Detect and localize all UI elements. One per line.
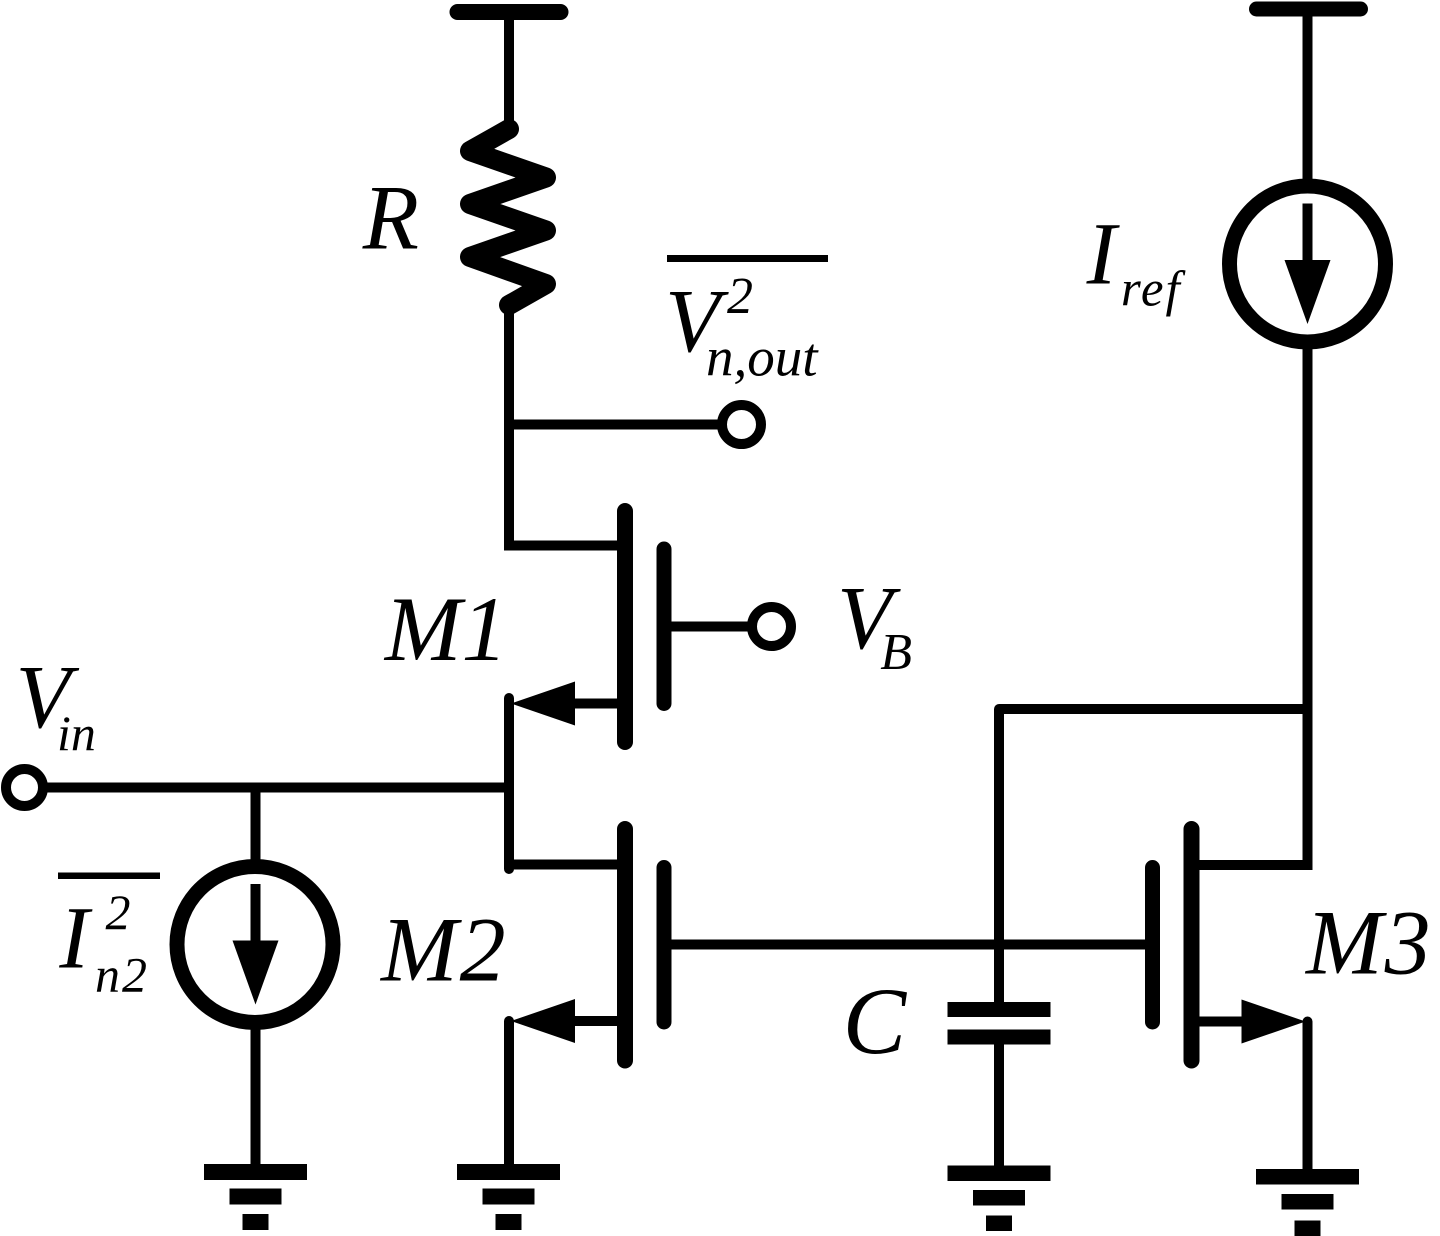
wire M3 source to ground — [1303, 1022, 1313, 1173]
label In2 overline — [58, 873, 160, 880]
svg-text:ref: ref — [1121, 262, 1187, 318]
wire M1 source to M2 drain — [504, 698, 514, 869]
svg-text:2: 2 — [106, 884, 131, 940]
transistor M1 — [509, 541, 618, 551]
svg-text:M3: M3 — [1304, 892, 1433, 994]
capacitor C — [948, 1002, 1051, 1017]
terminal Vin — [6, 769, 43, 806]
supply rail VDD left — [458, 4, 561, 20]
wire gate bus M2-M3 — [671, 940, 1145, 950]
wire capacitor to ground — [994, 1044, 1004, 1168]
current source Iref — [1230, 186, 1386, 342]
svg-text:B: B — [880, 624, 912, 681]
resistor R — [470, 129, 546, 305]
wire M2 source to ground — [504, 1021, 514, 1168]
svg-text:M2: M2 — [379, 899, 508, 1001]
wire node down to capacitor — [994, 709, 1004, 1007]
wire In2 to ground — [251, 1023, 261, 1169]
supply rail VDD right — [1257, 2, 1361, 17]
wire resistor to M1 drain — [504, 300, 514, 551]
ground 1 — [204, 1164, 307, 1180]
ground 3 — [948, 1166, 1051, 1182]
wire top node horizontal — [999, 704, 1308, 714]
svg-text:in: in — [57, 705, 96, 761]
current source In2 — [177, 867, 333, 1023]
ground 2 — [457, 1164, 560, 1180]
terminal Vn,out — [722, 405, 761, 444]
svg-text:C: C — [843, 968, 908, 1074]
wire supply to resistor — [504, 12, 514, 134]
wire output stub — [509, 420, 722, 430]
svg-text:n,out: n,out — [706, 327, 819, 388]
svg-text:I: I — [1086, 206, 1121, 304]
svg-text:2: 2 — [727, 268, 753, 325]
wire M1 gate lead — [671, 622, 748, 632]
wire Iref to M3 drain — [1303, 347, 1313, 870]
wire junction to In2 source — [251, 788, 261, 871]
svg-text:I: I — [58, 890, 93, 988]
svg-text:n2: n2 — [95, 946, 149, 1002]
label Vn,out overline — [667, 255, 828, 262]
terminal VB — [752, 607, 791, 646]
transistor M3 — [1199, 860, 1308, 870]
transistor M2 — [509, 860, 618, 870]
svg-text:R: R — [362, 167, 419, 269]
ground 4 — [1256, 1169, 1359, 1185]
wire supply to Iref — [1303, 9, 1313, 186]
wire Vin horizontal — [44, 783, 509, 793]
svg-text:M1: M1 — [383, 578, 508, 680]
